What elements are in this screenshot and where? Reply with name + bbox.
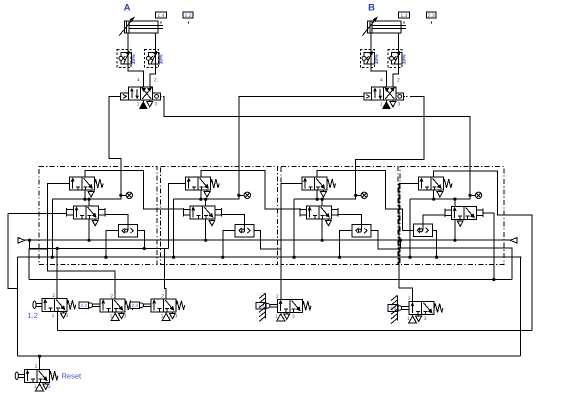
group 1 supply valve spring [95,179,104,188]
wire flow control to valve A port 4 [128,68,143,88]
group 3 link to bus wire [293,199,295,257]
valve 1.2 label [28,311,38,320]
group 1 shuttle left wire [106,231,118,258]
valve Reset exhaust [43,382,49,389]
group 4 plugged branch [468,192,481,198]
group 1 shuttle valve [118,224,137,237]
group 3 shuttle output wire [338,215,361,231]
group 2 link junction dots [199,198,207,201]
group 4 pilot wire [399,183,418,301]
group 2 pilot to valve 2.3 wire [165,249,169,299]
cylinder A [119,18,163,36]
group 4 supply valve exhaust [437,190,443,197]
valve Reset label [62,371,83,380]
group 1 shuttle right dot [143,247,146,250]
svg-text:3: 3 [292,314,295,320]
group 2 shuttle valve [235,224,254,237]
supply connector right [510,238,517,243]
group 4 supply bus dot [453,239,456,242]
wire flow control to valve B port 2 [393,68,399,88]
svg-text:1: 1 [52,313,55,319]
svg-text:1: 1 [407,316,410,322]
cascade group 3 frame [281,167,398,265]
valve 1.3 exhaust [284,312,290,319]
group 2 supply valve spring [211,179,220,188]
group 3 memory valve exhaust [325,219,331,226]
group 3 memory valve supply wire [321,219,323,240]
flow control valve right of B [388,49,408,67]
valve 1.4 port labels [407,296,427,322]
valve Reset port labels [34,364,51,390]
group 4 link to bus wire [409,199,411,257]
group 2 link to bus wire [173,199,175,257]
start line [30,240,169,248]
group 4 shuttle left wire [402,229,413,231]
supply connector left [18,238,25,243]
svg-text:2: 2 [154,77,157,83]
svg-text:3: 3 [154,102,157,108]
valve 2.2 exhaust [118,312,124,319]
start line supply dot [28,239,31,242]
label B [368,3,375,14]
valve 2.3 port labels [161,293,178,319]
flow control valve right of A [145,49,165,67]
svg-text:2: 2 [408,296,411,302]
svg-text:2.2: 2.2 [185,13,192,19]
group 4 memory valve supply wire [454,219,456,240]
cascade group 4 frame [400,167,504,265]
supply bus [25,239,511,241]
group 1 output wire [85,171,183,209]
group 3 pilot wire [281,183,302,298]
valve 1.3 supply triangle [277,312,285,321]
left pilot of valve A [121,93,129,100]
group 2 output wire [201,171,300,209]
valve B left pilot wire [239,96,364,195]
group 4 supply valve (3/2 pilot/spring) [418,177,443,190]
svg-text:2: 2 [52,293,55,299]
valve 1.2 exhaust [60,311,66,318]
limit/start valve 2.3 body [151,299,176,312]
ruler label 1.4 for cylinder A [155,12,166,23]
group 4 memory right pilot wire [483,213,494,280]
limit/start valve 1.4 body [409,302,434,315]
group 1 shuttle output wire [105,215,128,231]
group 4 shuttle output wire [423,215,445,230]
group 1 pilot branch [29,249,47,279]
group 2 plugged branch [237,192,250,198]
valve 1.4 actuator [388,295,409,323]
group 4 shuttle right bus dot [435,256,438,259]
svg-text:1.2: 1.2 [28,311,38,320]
group 3 memory valve (3/2 double pilot) [307,206,332,219]
group 1 memory valve (3/2 double pilot) [73,206,98,219]
svg-text:30%: 30% [159,54,165,65]
group 2 shuttle left bus dot [221,256,224,259]
valve 2.2 spring [125,301,134,310]
group 4 shuttle valve [413,224,432,237]
wire cylinder A left port to flow control [127,33,129,50]
start line valve dot [56,247,59,250]
valve 2.3 actuator [130,302,151,309]
group 4 shuttle right wire [432,230,436,257]
svg-text:2: 2 [110,293,113,299]
group 1 shuttle left bus dot [104,256,107,259]
group 2 shuttle left wire [223,231,235,258]
bus line 3 [29,279,512,281]
return bus [57,330,532,332]
left pilot of valve B [364,93,372,100]
group 3 memory valve right pilot bar [332,208,339,216]
group 1 link line [52,195,121,199]
group 3 supply valve port1 wire [316,190,318,199]
group 1 link to bus wire [51,199,53,257]
svg-text:1: 1 [275,314,278,320]
group 4 memory valve right pilot bar [477,209,484,217]
svg-text:3: 3 [398,102,401,108]
4/2 impulse valve A [129,87,153,100]
group 3 shuttle valve [352,224,371,237]
svg-text:1.4: 1.4 [157,13,164,19]
svg-text:3: 3 [175,313,178,319]
valve Reset supply triangle [36,382,44,391]
group 3 memory valve left pilot bar [300,208,307,216]
group 2 memory valve (3/2 double pilot) [190,206,215,219]
svg-text:1: 1 [380,102,383,108]
valve 1.2 actuator [33,301,42,309]
group 3 memory valve port2 wire [321,199,323,206]
group 1 supply valve exhaust [88,190,94,197]
valve 2.3 spring [176,301,185,310]
svg-text:2: 2 [35,364,38,370]
svg-text:1: 1 [161,313,164,319]
svg-text:1: 1 [137,102,140,108]
svg-text:30%: 30% [131,54,137,65]
supply triangle under valve B [383,100,390,109]
svg-text:2: 2 [276,294,279,300]
valve 2.3 exhaust [169,312,175,319]
svg-text:B: B [368,3,375,14]
group 2 bus tap dot [172,256,175,259]
right pressure line [401,240,512,279]
group 3 output wire [317,171,402,231]
svg-text:1.3: 1.3 [401,13,408,19]
reset line [17,355,520,357]
svg-text:1: 1 [110,313,113,319]
valve 1.2 port labels [52,293,69,319]
svg-text:Reset: Reset [62,371,83,380]
svg-text:3: 3 [124,313,127,319]
port labels valve A [137,77,158,107]
flow control valve left of A [117,49,137,67]
port labels valve B [380,77,401,107]
group 2 link line [174,195,239,199]
svg-text:4: 4 [380,77,383,83]
svg-text:2: 2 [397,77,400,83]
flow control valve left of B [360,49,380,67]
group 2 memory valve exhaust [209,219,215,226]
group 3 link line [294,195,356,199]
group 2 memory valve left pilot bar [183,208,190,216]
group 3 shuttle left wire [340,231,352,258]
reset riser right [520,257,522,356]
valve 2.2 port labels [110,293,127,319]
bus line 2 [17,256,521,258]
group 3 supply bus dot [321,239,324,242]
4/2 impulse valve B [372,87,396,100]
group 3 shuttle left bus dot [338,256,341,259]
svg-text:4: 4 [137,77,140,83]
valve 2.2 actuator [79,302,100,309]
group 1 memory valve exhaust [92,219,98,226]
group 2 memory valve port2 wire [205,199,207,206]
group 1 memory valve right pilot bar [98,208,105,216]
valve Reset spring [49,371,58,380]
pilot dashes right of valve A [161,95,166,97]
valve 1.4 exhaust [416,315,422,322]
wire flow control to valve A port 2 [150,68,156,88]
valve 1.2 spring [67,300,76,309]
group 1 link junction dots [83,198,90,201]
cylinder B [362,18,406,36]
group 2 shuttle right wire [254,231,281,249]
right pilot of valve B [396,93,404,100]
svg-text:1: 1 [34,384,37,390]
group 4 bus tap dot [408,256,411,259]
ruler label 2.2 for cylinder A [183,12,193,24]
reset riser joint [8,214,18,289]
svg-text:2.3: 2.3 [428,13,435,19]
group 2 shuttle output wire [222,215,245,231]
group 1 supply bus dot [87,239,90,242]
group 3 supply valve (3/2 pilot/spring) [302,177,327,190]
group 3 shuttle right wire [371,231,401,249]
group 4 supply valve spring [443,179,452,188]
group 1 memory pilot wire [8,213,67,215]
group 4 memory valve exhaust [457,219,463,226]
group 4 memory valve port2 wire [454,199,456,206]
svg-text:2.3: 2.3 [132,303,139,308]
group 2 memory valve supply wire [205,219,207,240]
valve 2.2 supply triangle [111,312,119,321]
cascade group 2 frame [160,167,277,265]
svg-text:30%: 30% [402,54,408,65]
group 1 supply valve (3/2 pilot/spring) [70,177,95,190]
exhaust under valve B [390,100,396,107]
valve 2.3 supply triangle [162,312,170,321]
valve 1.3 spring [302,301,311,310]
limit/start valve 1.2 body [42,298,67,311]
group 4 right pilot bus dot [492,278,495,281]
wire cylinder B left port to flow control [370,33,372,50]
svg-text:30%: 30% [374,54,380,65]
group 4 link line [410,195,470,199]
group 1 memory valve supply wire [88,219,90,240]
reset line dot [38,355,41,358]
wire cylinder A right port to flow control [155,33,157,50]
group 3 link junction dots [316,198,324,201]
valve A right pilot wire [164,96,470,195]
group 2 supply valve exhaust [204,190,210,197]
group 1 shuttle right wire [137,231,144,249]
group 3 supply valve spring [327,179,336,188]
svg-text:2: 2 [161,293,164,299]
group 4 output wire [434,171,532,330]
group 4 memory valve (3/2 double pilot) [452,206,477,219]
group 4 supply valve port1 wire [433,190,435,199]
valve 1.2 supply wire [56,311,58,330]
cascade group 1 frame [39,167,157,265]
group 4 link junction dots [432,198,456,201]
group 3 plugged branch [354,192,367,198]
right pilot of valve A [153,93,161,100]
label A [124,3,131,14]
exhaust under valve A [147,100,153,107]
limit/start valve 1.3 body [277,299,302,312]
group 1 plugged branch [119,192,132,198]
wire flow control to valve B port 4 [371,68,386,88]
group 2 memory valve right pilot bar [215,208,222,216]
group 3 bus tap dot [293,256,296,259]
valve A left pilot wire [109,96,121,195]
svg-text:A: A [124,3,131,14]
group 4 memory valve left pilot bar [445,209,452,217]
reset riser left [16,257,18,356]
valve 1.3 actuator [256,293,277,321]
right pressure dot [399,239,402,242]
group 2 supply valve (3/2 pilot/spring) [186,177,211,190]
valve 1.3 port labels [275,294,295,320]
ruler label 1.3 for cylinder B [398,12,409,23]
valve 1.4 supply triangle [409,315,417,324]
group 3 supply valve exhaust [320,190,326,197]
pilot dashes right of valve B [404,95,409,97]
group 2 pilot wire [168,183,185,248]
reset valve output wire [39,356,41,369]
valve Reset actuator [15,372,24,380]
group 1 supply valve port1 wire [84,190,86,199]
limit/start valve 2.2 body [100,299,125,312]
svg-text:2.2: 2.2 [81,303,88,308]
svg-text:3: 3 [66,313,69,319]
svg-text:3: 3 [48,384,51,390]
group 2 supply bus dot [204,239,207,242]
group 1 memory valve port2 wire [88,199,90,206]
group 1 bus tap dot [51,256,54,259]
limit/start valve Reset body [24,369,49,382]
valve 1.4 spring [434,304,443,313]
valve B right pilot wire [356,96,424,195]
svg-text:3: 3 [424,316,427,322]
group 1 pilot wire [48,183,116,298]
group 2 supply valve port1 wire [200,190,202,199]
wire cylinder B right port to flow control [398,33,400,50]
ruler label 2.3 for cylinder B [426,12,436,24]
group 1 memory valve left pilot bar [67,208,74,216]
valve 1.2 output wire [56,249,58,299]
supply triangle under valve A [140,100,147,109]
